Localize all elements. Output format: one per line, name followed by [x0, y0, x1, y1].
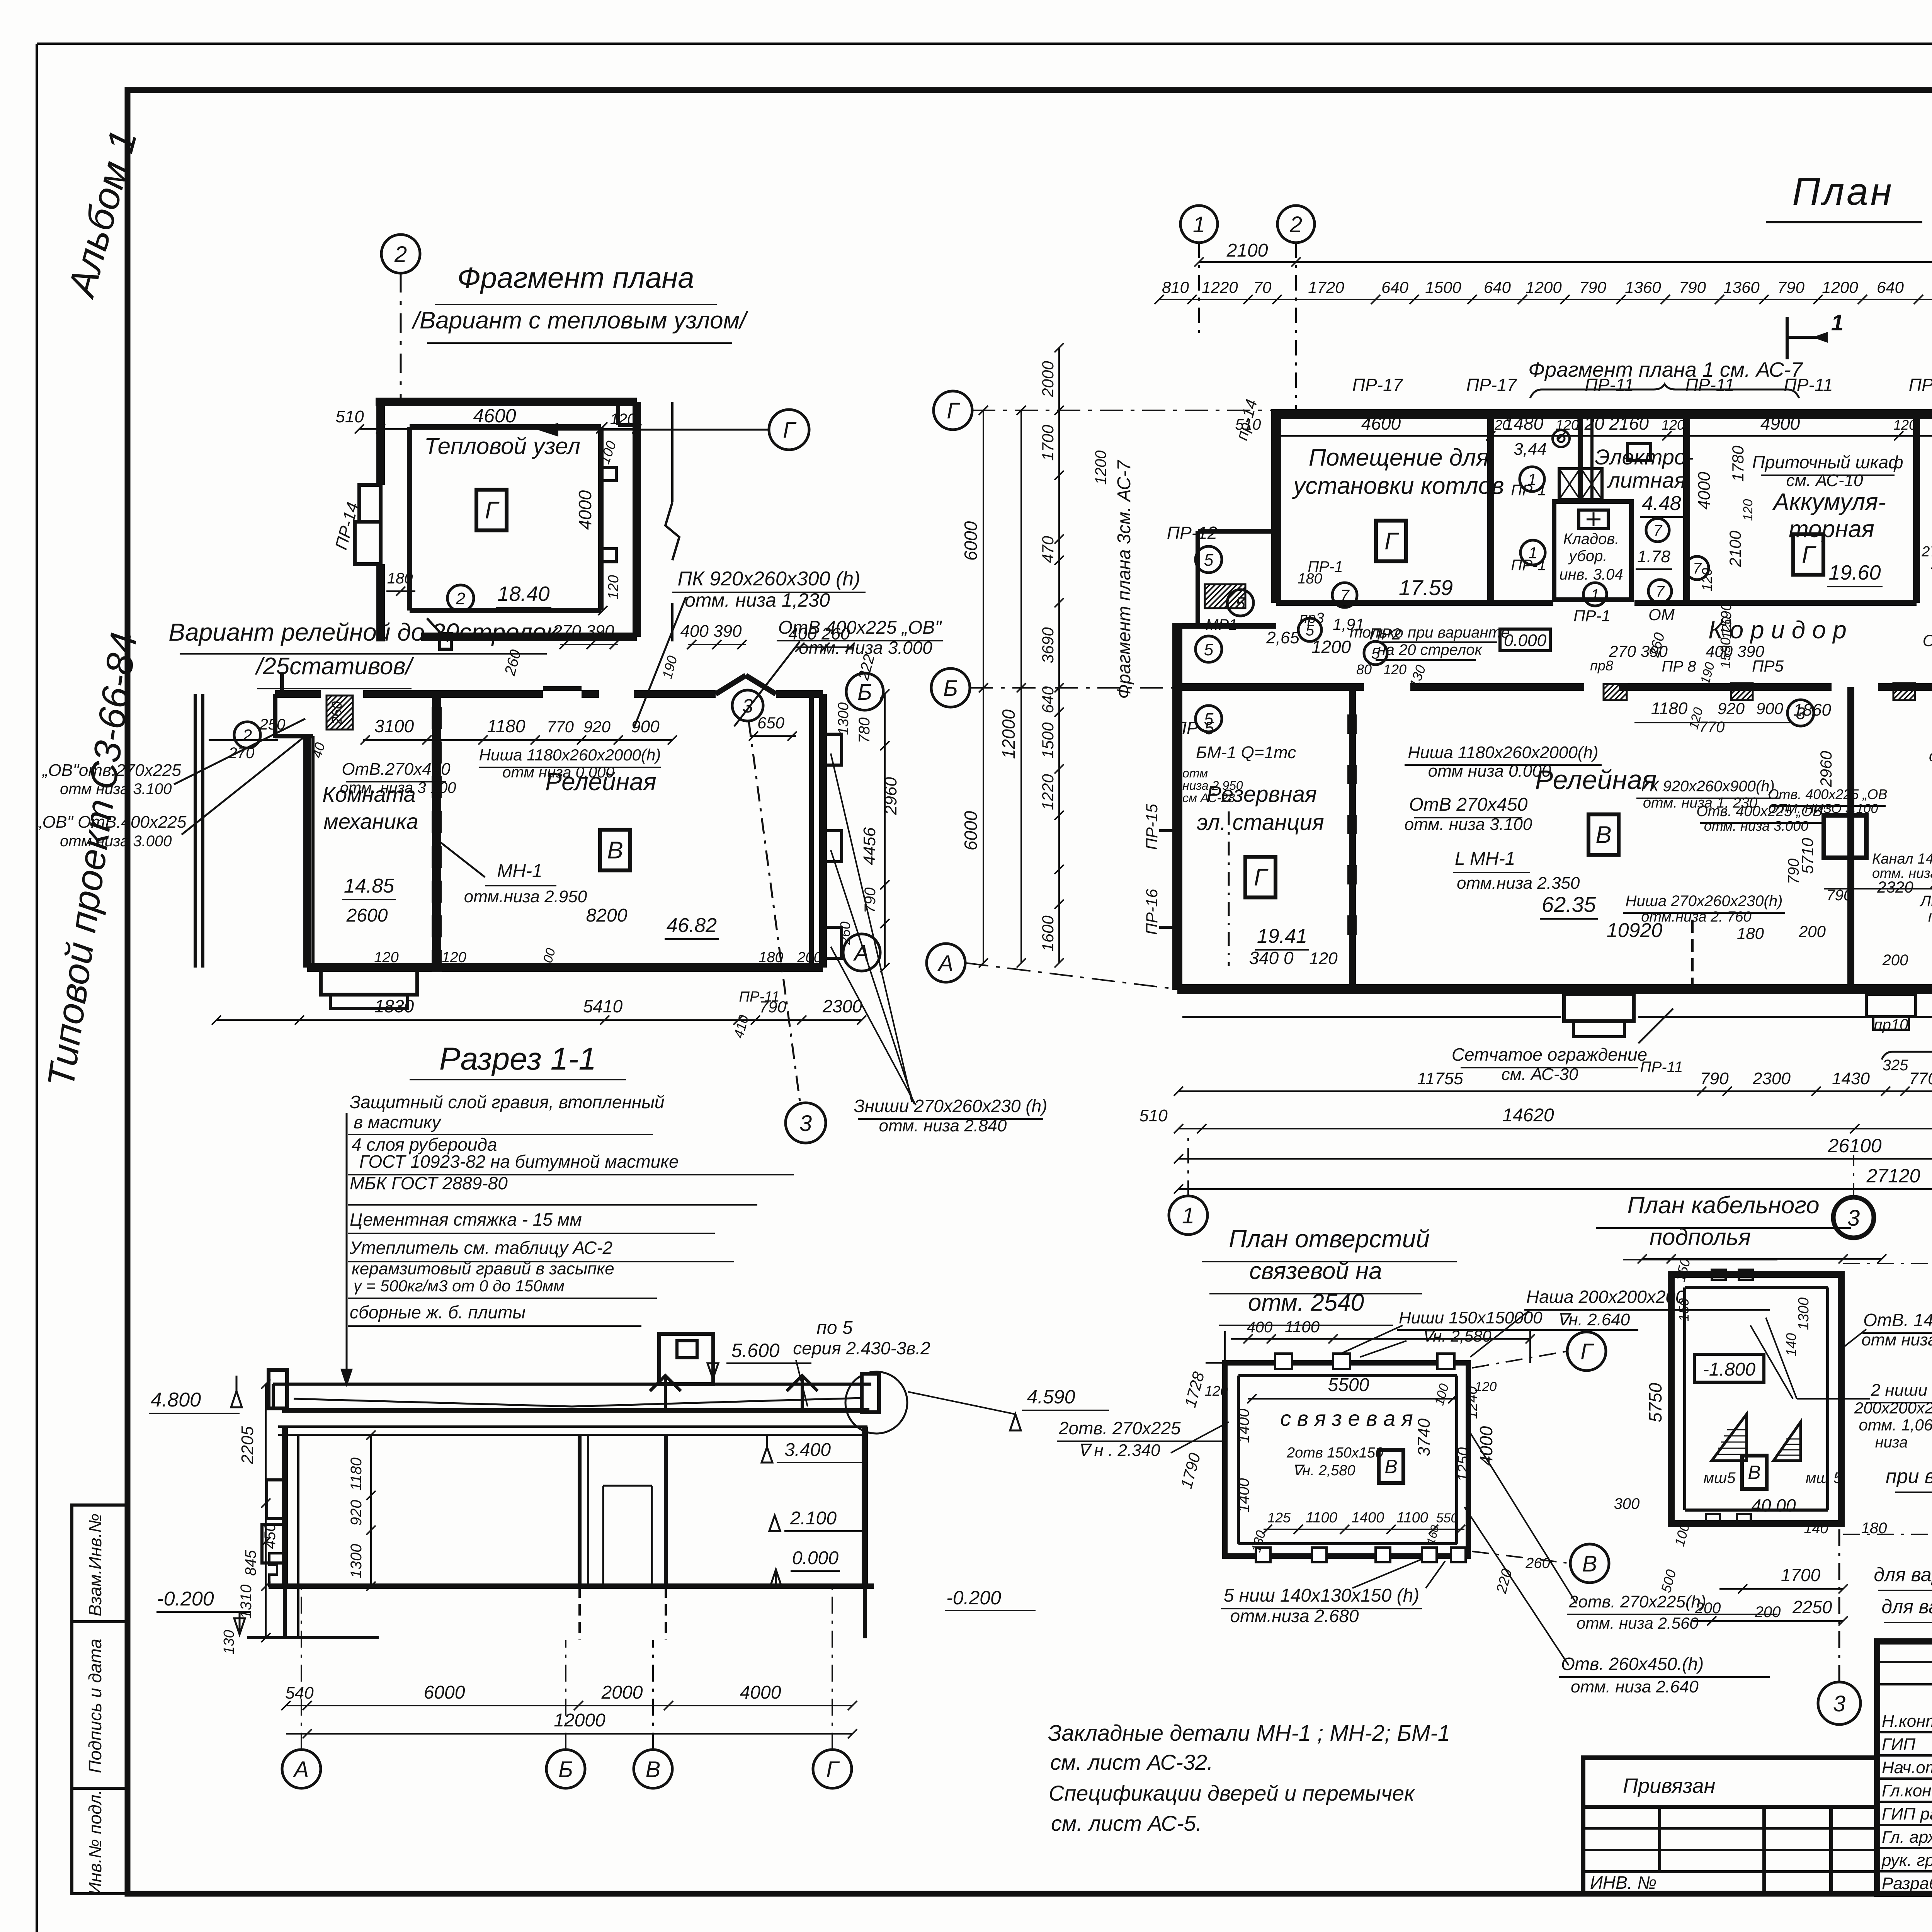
svg-text:Закладные детали МН-1 ; МН-: Закладные детали МН-1 ; МН-2; БМ-1 [1048, 1721, 1450, 1746]
svg-text:эл. станция: эл. станция [1197, 810, 1324, 835]
svg-text:27120: 27120 [1866, 1165, 1920, 1187]
svg-text:1400: 1400 [1352, 1510, 1384, 1526]
svg-text:1220: 1220 [1039, 774, 1057, 810]
svg-text:Ниша 1180х260х2000(h): Ниша 1180х260х2000(h) [1408, 743, 1598, 762]
svg-text:2960: 2960 [1817, 751, 1835, 787]
svg-text:3: 3 [742, 695, 753, 717]
svg-text:Гл.констр: Гл.констр [1882, 1781, 1932, 1800]
svg-text:450: 450 [262, 1523, 279, 1549]
svg-text:ГИП: ГИП [1882, 1735, 1915, 1754]
svg-text:180: 180 [1737, 924, 1764, 942]
svg-text:Н.контр.: Н.контр. [1882, 1712, 1932, 1731]
svg-text:2.100: 2.100 [790, 1508, 837, 1529]
svg-text:4900: 4900 [1760, 413, 1800, 434]
bottom chain 1 [1179, 1090, 1932, 1092]
svg-text:полье: полье [1928, 908, 1932, 925]
svg-text:7: 7 [1656, 583, 1665, 600]
svg-text:2000: 2000 [1039, 361, 1057, 398]
section roof slope lines [294, 1399, 572, 1406]
svg-text:120: 120 [1205, 1383, 1228, 1399]
svg-text:200: 200 [1882, 952, 1908, 969]
corridor lower wall [1177, 683, 1364, 691]
svg-text:3.400: 3.400 [784, 1440, 831, 1460]
svg-text:связевой на: связевой на [1249, 1258, 1382, 1284]
svg-text:0.000: 0.000 [792, 1548, 838, 1568]
svg-text:2,65: 2,65 [1266, 628, 1299, 647]
svg-text:120: 120 [1662, 417, 1685, 433]
main plan left lower outer wall [1172, 623, 1182, 990]
left porch walls [1198, 529, 1271, 534]
svg-text:120: 120 [605, 575, 622, 599]
svg-text:отм.низа 2.700 „ОВ": отм.низа 2.700 „ОВ" [1929, 748, 1932, 765]
svg-text:см. АС-10: см. АС-10 [1786, 471, 1863, 490]
svg-text:140: 140 [1783, 1333, 1799, 1356]
svg-text:Спецификации дверей и перем: Спецификации дверей и перемычек [1049, 1781, 1415, 1805]
svg-text:ИНВ. №: ИНВ. № [1590, 1872, 1656, 1893]
svg-text:2300: 2300 [1752, 1069, 1791, 1088]
circle Б relay variant [846, 673, 883, 710]
section chimney [659, 1334, 713, 1384]
svg-text:270: 270 [228, 745, 255, 762]
svg-text:640: 640 [1039, 686, 1057, 713]
upper interior dim row [1276, 435, 1932, 437]
svg-text:4.590: 4.590 [1027, 1386, 1075, 1408]
svg-text:Б: Б [943, 676, 958, 701]
svg-text:790: 790 [1777, 278, 1805, 296]
svg-text:14.85: 14.85 [344, 875, 395, 897]
svg-text:отм. низа 1,230: отм. низа 1,230 [685, 589, 830, 611]
small plus box in storeroom [1579, 510, 1608, 529]
svg-text:ПР-11: ПР-11 [1784, 375, 1833, 395]
svg-text:ПР-11: ПР-11 [1640, 1059, 1683, 1076]
left vdim 6000/6000 [983, 410, 984, 963]
svg-text:ПР5: ПР5 [1752, 657, 1784, 675]
svg-text:γ = 500кг/м3 от 0 до 150мм: γ = 500кг/м3 от 0 до 150мм [354, 1277, 565, 1295]
svg-text:керамзитовый гравий в засыпке: керамзитовый гравий в засыпке [352, 1259, 614, 1278]
svg-text:26100: 26100 [1827, 1135, 1881, 1156]
left porch hatch МР1 [1205, 584, 1245, 608]
svg-text:ОтВ 270х450: ОтВ 270х450 [1409, 794, 1528, 815]
svg-text:120: 120 [442, 949, 466, 966]
roof text leader [346, 1113, 348, 1376]
svg-text:4600: 4600 [1361, 413, 1401, 434]
svg-text:5 ниш 140х130х150 (h): 5 ниш 140х130х150 (h) [1224, 1585, 1420, 1606]
svg-text:-0.200: -0.200 [946, 1587, 1001, 1609]
svg-text:120: 120 [610, 411, 636, 428]
svg-text:Взам.Инв.№: Взам.Инв.№ [85, 1514, 105, 1616]
svg-text:12000: 12000 [554, 1710, 605, 1731]
svg-text:4456: 4456 [860, 827, 879, 865]
svg-text:150: 150 [1676, 1298, 1692, 1321]
svg-text:3: 3 [1833, 1691, 1845, 1716]
bottom wall pilasters ПР10 [1866, 994, 1916, 1017]
svg-text:300: 300 [1614, 1495, 1640, 1512]
svg-text:В: В [1595, 822, 1611, 849]
svg-text:МН-1: МН-1 [497, 861, 542, 881]
svg-text:6000: 6000 [961, 521, 981, 561]
svg-text:770: 770 [1909, 1069, 1932, 1088]
upper rooms / corridor wall [1276, 600, 1553, 606]
svg-text:∇н. 2.640: ∇н. 2.640 [1557, 1310, 1630, 1329]
svg-text:5.600: 5.600 [731, 1340, 779, 1361]
holes plan bottom niches [1256, 1548, 1270, 1562]
svg-text:В: В [646, 1757, 661, 1782]
svg-text:Кладов.: Кладов. [1563, 531, 1619, 548]
svg-text:180: 180 [759, 949, 783, 966]
svg-text:2отв. 270х225(h): 2отв. 270х225(h) [1568, 1592, 1706, 1611]
svg-text:1830: 1830 [374, 996, 414, 1016]
svg-text:План кабельного: План кабельного [1627, 1192, 1819, 1219]
svg-text:отм. низа 2.560: отм. низа 2.560 [1577, 1614, 1699, 1632]
cable plan stairs triangles [1712, 1414, 1747, 1461]
svg-text:220: 220 [1493, 1567, 1515, 1595]
svg-text:Отв. 260х450.(h): Отв. 260х450.(h) [1561, 1654, 1704, 1674]
svg-text:500: 500 [1658, 1568, 1679, 1594]
svg-text:только при варианте: только при варианте [1350, 624, 1510, 641]
svg-text:510: 510 [335, 407, 364, 426]
svg-text:1300: 1300 [1796, 1298, 1812, 1330]
section ceiling lines [278, 1425, 867, 1428]
svg-text:260: 260 [329, 701, 345, 725]
svg-text:4.48: 4.48 [1642, 492, 1681, 515]
svg-text:1500: 1500 [1425, 278, 1461, 296]
svg-text:920: 920 [1718, 699, 1745, 718]
svg-text:2отв. 270х225: 2отв. 270х225 [1058, 1418, 1181, 1438]
heat unit door gap [447, 585, 474, 611]
svg-text:5750: 5750 [1645, 1383, 1665, 1422]
svg-text:пр8: пр8 [1590, 658, 1613, 673]
svg-text:ПР-12: ПР-12 [1167, 523, 1218, 543]
svg-text:Г: Г [1254, 864, 1269, 891]
svg-text:отм. низа 3.100: отм. низа 3.100 [1405, 815, 1532, 834]
svg-text:торная: торная [1789, 516, 1874, 543]
svg-text:Электро-: Электро- [1595, 445, 1694, 469]
svg-text:В: В [1384, 1456, 1397, 1478]
svg-text:3: 3 [799, 1111, 812, 1136]
svg-text:План отверстий: План отверстий [1229, 1225, 1430, 1253]
svg-text:120: 120 [1309, 949, 1338, 968]
section axis circles [282, 1750, 321, 1788]
svg-text:Г: Г [1384, 528, 1399, 555]
axis circles below plan [1169, 1196, 1207, 1235]
svg-text:ГИП разд.: ГИП разд. [1882, 1804, 1932, 1823]
toilet boxes [1559, 469, 1580, 500]
svg-text:Б: Б [857, 680, 872, 705]
svg-text:5: 5 [1204, 551, 1214, 570]
svg-text:1430: 1430 [1832, 1069, 1870, 1088]
round pipe symbol [1553, 430, 1570, 447]
svg-text:770: 770 [547, 718, 574, 736]
svg-text:6000: 6000 [424, 1682, 465, 1703]
svg-text:отм низа - 0,550: отм низа - 0,550 [1861, 1330, 1932, 1349]
svg-text:В: В [607, 837, 623, 864]
svg-text:1300: 1300 [835, 702, 852, 735]
svg-text:рук. гр.: рук. гр. [1881, 1851, 1932, 1870]
svg-text:5710: 5710 [1798, 838, 1816, 874]
svg-text:12000: 12000 [998, 709, 1019, 759]
svg-text:Г: Г [1802, 542, 1816, 568]
svg-text:260: 260 [1930, 876, 1932, 892]
svg-text:План: План [1792, 170, 1894, 213]
svg-text:ПР-1: ПР-1 [1573, 607, 1611, 625]
svg-text:отм низа 3.000: отм низа 3.000 [60, 833, 172, 850]
svg-text:270 390: 270 390 [552, 622, 614, 641]
svg-text:отм. 1,060: отм. 1,060 [1859, 1416, 1932, 1434]
left axis circle Г [934, 391, 972, 430]
svg-text:∇н. 2,580: ∇н. 2,580 [1293, 1463, 1355, 1479]
upper partition wall B [1578, 414, 1583, 502]
electro room plus box [1628, 444, 1651, 461]
svg-text:790: 790 [1700, 1069, 1729, 1088]
relay variant right pilasters [823, 734, 842, 765]
svg-text:920: 920 [348, 1500, 365, 1526]
bottom chain 3 [1179, 1158, 1932, 1160]
svg-text:Подпись и дата: Подпись и дата [85, 1639, 105, 1773]
svg-text:46.82: 46.82 [667, 914, 717, 937]
svg-text:190: 190 [1698, 661, 1718, 686]
section wall ledges left [267, 1480, 285, 1519]
svg-text:1860: 1860 [1793, 701, 1831, 719]
svg-text:серия 2.430-3в.2: серия 2.430-3в.2 [793, 1338, 930, 1358]
svg-text:810: 810 [1162, 278, 1189, 296]
svg-text:-0.200: -0.200 [157, 1588, 214, 1610]
svg-text:Канал 140х140: Канал 140х140 [1872, 851, 1932, 867]
svg-text:1400: 1400 [1235, 1409, 1252, 1443]
svg-text:Г: Г [826, 1757, 840, 1782]
svg-text:4.800: 4.800 [151, 1389, 201, 1411]
svg-text:510: 510 [1139, 1106, 1168, 1125]
storeroom enclosure [1554, 502, 1631, 600]
svg-text:ПР-16: ПР-16 [1143, 889, 1161, 935]
svg-text:отм. 2540: отм. 2540 [1248, 1289, 1364, 1316]
bottom chain 2 [1179, 1128, 1932, 1129]
svg-text:Аккумуля-: Аккумуля- [1772, 489, 1886, 515]
svg-text:2250: 2250 [1792, 1597, 1832, 1617]
relay variant top wall [275, 690, 321, 698]
relay variant bottom porch [321, 968, 417, 995]
svg-text:200: 200 [1798, 922, 1826, 940]
svg-text:отм. низа 3.000: отм. низа 3.000 [1704, 818, 1809, 834]
svg-text:1310: 1310 [238, 1585, 255, 1619]
svg-text:400: 400 [1247, 1319, 1273, 1336]
svg-text:4000: 4000 [1695, 472, 1714, 510]
svg-text:отм низа 3.100: отм низа 3.100 [60, 781, 172, 798]
left column strip [72, 1505, 128, 1894]
svg-text:Фрагмент плана 3см. АС-7: Фрагмент плана 3см. АС-7 [1114, 459, 1134, 699]
svg-text:Гл. арх.: Гл. арх. [1882, 1828, 1932, 1847]
svg-text:1: 1 [1182, 1203, 1194, 1228]
svg-text:см АС-28: см АС-28 [1182, 791, 1235, 805]
svg-text:Разраб.: Разраб. [1882, 1874, 1932, 1893]
svg-text:1: 1 [1193, 212, 1205, 237]
svg-text:7: 7 [1653, 522, 1663, 539]
svg-text:∇н. 2,580: ∇н. 2,580 [1422, 1327, 1492, 1345]
svg-text:920: 920 [583, 718, 611, 736]
svg-text:260: 260 [501, 648, 524, 678]
svg-text:1700: 1700 [1039, 425, 1057, 461]
svg-text:0.000: 0.000 [1504, 631, 1547, 650]
svg-text:19.60: 19.60 [1828, 561, 1881, 584]
svg-text:1200: 1200 [1526, 278, 1562, 296]
svg-text:40 00: 40 00 [1751, 1495, 1796, 1515]
svg-text:отм. низа 2.640: отм. низа 2.640 [1571, 1677, 1699, 1696]
svg-text:1220: 1220 [1202, 278, 1238, 296]
outer thin frame [37, 43, 1932, 45]
svg-text:1200: 1200 [1822, 278, 1858, 296]
svg-text:2отв 150х150: 2отв 150х150 [1286, 1445, 1383, 1461]
svg-text:1360: 1360 [1625, 278, 1661, 296]
section below-floor stubs [283, 1586, 287, 1638]
svg-text:5: 5 [1204, 640, 1214, 659]
relay variant left porch hatch [327, 696, 353, 730]
svg-text:В: В [1748, 1462, 1760, 1483]
svg-text:2: 2 [242, 726, 252, 745]
main plan top outer wall [1271, 409, 1932, 419]
svg-text:Наша 200х200х200: Наша 200х200х200 [1526, 1287, 1685, 1307]
section bottom dims [286, 1705, 852, 1706]
fragment leader to Г circle [641, 429, 769, 431]
svg-text:/25стативов/: /25стативов/ [255, 653, 415, 680]
upper partition wall D [1913, 414, 1920, 603]
svg-text:2: 2 [394, 242, 407, 267]
svg-text:80: 80 [1356, 662, 1372, 677]
svg-text:ОтВ. 140х150 (h): ОтВ. 140х150 (h) [1863, 1310, 1932, 1330]
svg-text:-1.800: -1.800 [1703, 1359, 1755, 1380]
section left parapet [269, 1370, 287, 1408]
svg-text:120: 120 [1475, 1379, 1497, 1394]
svg-text:1728: 1728 [1181, 1369, 1208, 1409]
top segment dimension chain [1159, 299, 1932, 300]
svg-text:литная: литная [1607, 468, 1685, 492]
svg-text:1300: 1300 [348, 1544, 365, 1578]
svg-text:62.35: 62.35 [1542, 892, 1596, 917]
section floor [269, 1583, 874, 1589]
svg-text:1780: 1780 [1729, 446, 1747, 482]
section left wall [282, 1427, 288, 1586]
svg-text:6000: 6000 [961, 811, 981, 850]
svg-text:540: 540 [285, 1684, 314, 1702]
svg-text:770: 770 [1699, 719, 1725, 736]
cable plan bottom dims [1719, 1588, 1843, 1590]
svg-text:Релейная: Релейная [1535, 765, 1657, 795]
section right detail circle [845, 1372, 907, 1434]
svg-text:250: 250 [259, 716, 286, 733]
svg-text:1700: 1700 [1781, 1565, 1821, 1585]
svg-text:120: 120 [1383, 662, 1406, 677]
svg-text:510: 510 [1235, 416, 1261, 433]
section roof slab [273, 1383, 871, 1386]
svg-text:790: 790 [1679, 278, 1706, 296]
cable plan niche squares [1712, 1270, 1726, 1280]
svg-text:1180: 1180 [348, 1458, 365, 1491]
svg-text:2300: 2300 [822, 996, 862, 1016]
svg-text:А: А [937, 951, 954, 976]
break mark right [665, 502, 679, 560]
holes plan top dim line [1231, 1338, 1530, 1340]
svg-text:14620: 14620 [1502, 1105, 1554, 1126]
svg-text:200: 200 [797, 949, 821, 966]
svg-text:ПР-14: ПР-14 [332, 500, 362, 552]
niche blobs on wall [1348, 715, 1356, 733]
cable plan level box [1694, 1354, 1764, 1382]
svg-text:Зниши 270х260х230 (h): Зниши 270х260х230 (h) [854, 1096, 1048, 1116]
heat unit top dims [359, 428, 638, 430]
svg-text:11755: 11755 [1417, 1069, 1463, 1088]
svg-text:Г: Г [947, 398, 961, 423]
axis circle 1 top [1180, 206, 1218, 243]
svg-text:мш 5: мш 5 [1806, 1469, 1842, 1486]
svg-text:Отв. 400х225 „ОВ: Отв. 400х225 „ОВ [1768, 786, 1888, 802]
left vdim chain [1058, 348, 1060, 963]
svg-text:5: 5 [1236, 594, 1245, 613]
svg-text:2100: 2100 [1726, 531, 1744, 567]
svg-text:ПР-1: ПР-1 [1511, 482, 1546, 499]
cable plan top dim line [1642, 1258, 1882, 1260]
svg-text:А: А [293, 1757, 309, 1782]
title block sign rows [1877, 1731, 1932, 1733]
svg-text:2600: 2600 [346, 905, 388, 926]
svg-text:2320: 2320 [1877, 878, 1913, 896]
svg-text:ПР-17: ПР-17 [1466, 375, 1517, 395]
svg-text:260: 260 [837, 922, 853, 945]
svg-text:Цементная стяжка - 15 мм: Цементная стяжка - 15 мм [350, 1209, 582, 1230]
foundation line below bottom wall [1182, 1016, 1561, 1018]
axis circle 3 relay variant [732, 690, 763, 721]
svg-text:см. лист АС-32.: см. лист АС-32. [1050, 1750, 1213, 1774]
svg-text:МБК ГОСТ 2889-80: МБК ГОСТ 2889-80 [350, 1173, 508, 1193]
svg-text:пр10: пр10 [1874, 1016, 1908, 1033]
relay variant walls [303, 736, 311, 968]
svg-text:Инв.№ подл.: Инв.№ подл. [85, 1790, 105, 1895]
svg-text:900: 900 [1756, 699, 1784, 718]
svg-text:7: 7 [1340, 586, 1350, 604]
section door opening [602, 1486, 604, 1586]
section vent hats [650, 1376, 681, 1391]
svg-text:200: 200 [1695, 1600, 1721, 1617]
svg-text:180: 180 [387, 570, 413, 587]
svg-text:Люк в под-: Люк в под- [1919, 893, 1932, 910]
svg-text:1600: 1600 [1039, 915, 1057, 952]
svg-text:1590: 1590 [1718, 638, 1733, 668]
svg-text:Нач.отд.: Нач.отд. [1882, 1758, 1932, 1777]
svg-text:1790: 1790 [1177, 1451, 1204, 1490]
main plan bottom outer wall [1177, 984, 1932, 994]
svg-text:отм низа 0.000: отм низа 0.000 [1428, 762, 1551, 781]
svg-text:„ОВ" ОтВ.400х225: „ОВ" ОтВ.400х225 [36, 813, 187, 832]
svg-text:18.40: 18.40 [497, 582, 549, 605]
svg-text:Сетчатое ограждение: Сетчатое ограждение [1452, 1044, 1647, 1065]
svg-text:на 20 стрелок: на 20 стрелок [1378, 641, 1483, 658]
svg-text:отм.низа 2. 760: отм.низа 2. 760 [1641, 909, 1752, 925]
svg-text:550: 550 [1436, 1511, 1458, 1526]
svg-text:120: 120 [374, 949, 398, 966]
svg-text:Вариант релейной до 20стрелок: Вариант релейной до 20стрелок [168, 618, 559, 646]
svg-text:2205: 2205 [238, 1426, 257, 1464]
svg-text:сборные ж. б. плиты: сборные ж. б. плиты [350, 1302, 526, 1322]
cable plan walls [1671, 1274, 1841, 1524]
svg-text:ПР-17: ПР-17 [1352, 375, 1403, 395]
svg-text:3740: 3740 [1415, 1418, 1434, 1456]
circle А relay variant [843, 934, 880, 971]
svg-text:1100: 1100 [1285, 1318, 1320, 1336]
svg-text:при варианте на 20 стрелок: при варианте на 20 стрелок [1886, 1465, 1932, 1488]
svg-text:325: 325 [1883, 1057, 1908, 1074]
svg-text:900: 900 [631, 717, 660, 736]
svg-text:200х200х200: 200х200х200 [1854, 1399, 1932, 1417]
svg-text:4600: 4600 [473, 405, 516, 427]
svg-text:8200: 8200 [586, 905, 628, 926]
fragment plan axis circle 2 [381, 235, 420, 273]
